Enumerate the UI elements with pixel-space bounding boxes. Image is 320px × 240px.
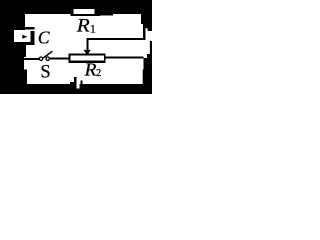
resistor R2 (rheostat box) <box>69 54 106 63</box>
rheostat slider arrow onto R2 <box>84 39 91 56</box>
wire: R2 right terminal to right side (wire B) <box>106 57 144 59</box>
battery gap (white slot) <box>76 82 79 89</box>
svg-text:S: S <box>40 63 50 83</box>
wire: right vertical from top bar down to wire A <box>143 14 145 40</box>
resistor R1 (box embedded in top bar) <box>70 9 100 16</box>
right border curved mass (lower part) <box>143 41 152 94</box>
label R1 <box>76 16 96 36</box>
capacitor C (thick open box) <box>12 27 35 45</box>
wire: top bus bar (scan-merged top border + top wire) <box>0 0 152 15</box>
switch S <box>39 51 52 60</box>
right border curved mass (page-curl, upper part) <box>141 0 152 31</box>
label R2 <box>84 60 102 80</box>
white page background <box>0 0 152 94</box>
wire: switch to R2 <box>50 58 69 60</box>
left border column (scan-merged left wire) <box>0 0 27 85</box>
svg-text:2: 2 <box>96 68 101 79</box>
svg-text:1: 1 <box>90 23 96 35</box>
svg-text:C: C <box>38 28 50 48</box>
svg-text:R: R <box>84 60 97 80</box>
svg-text:R: R <box>76 16 90 36</box>
battery plate (short) <box>80 80 82 84</box>
bottom border band (scan-merged bottom wire) <box>0 84 152 94</box>
arrow inside C <box>22 35 27 39</box>
wire: slider to right side (wire A) <box>87 38 145 40</box>
battery plate (long) at bottom <box>70 77 76 85</box>
wire: left column to switch <box>20 58 39 60</box>
